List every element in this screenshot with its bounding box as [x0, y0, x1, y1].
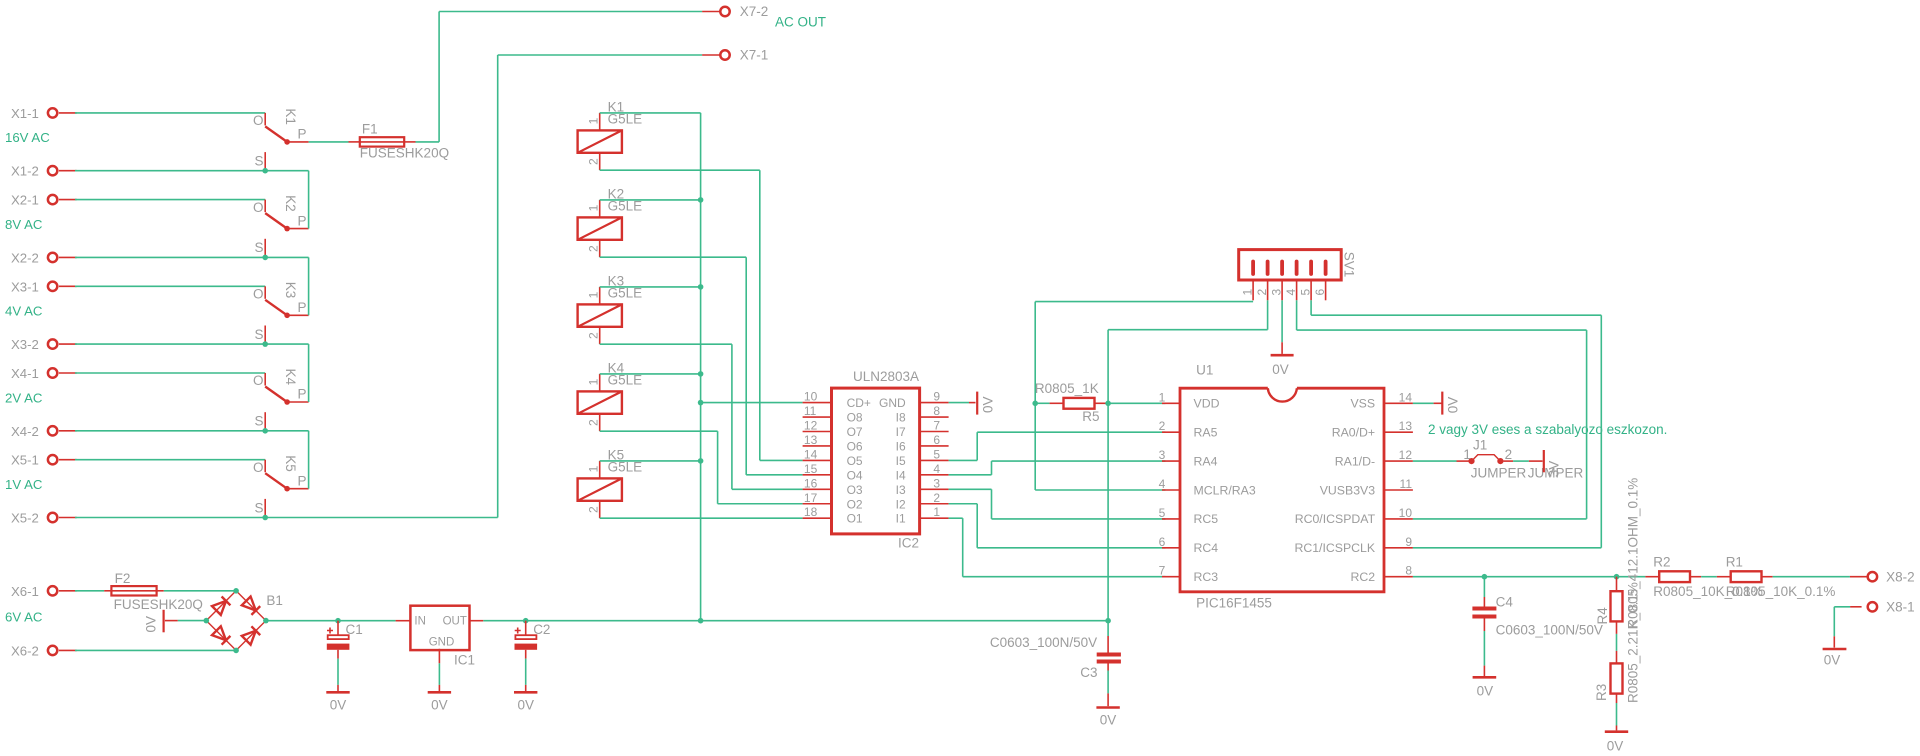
svg-text:RC3: RC3: [1194, 570, 1219, 584]
ground 0V under X8-1: [1823, 636, 1847, 667]
svg-text:X6-1: X6-1: [11, 584, 39, 599]
svg-text:2: 2: [586, 158, 600, 165]
svg-text:9: 9: [933, 390, 940, 404]
wire K5 coil to IC2.O1: [600, 517, 803, 519]
svg-text:RA0/D+: RA0/D+: [1332, 426, 1375, 440]
svg-text:0V: 0V: [330, 698, 347, 713]
wire K1 coil top: [600, 112, 701, 114]
svg-text:2: 2: [1505, 447, 1513, 462]
svg-text:9: 9: [1405, 535, 1412, 549]
wire SV1.3 to ground: [1281, 300, 1283, 342]
svg-text:0V: 0V: [517, 698, 534, 713]
svg-text:11: 11: [1400, 477, 1413, 491]
svg-text:O5: O5: [847, 454, 863, 468]
svg-text:O4: O4: [847, 468, 863, 482]
svg-text:3: 3: [933, 476, 940, 490]
svg-text:X1-2: X1-2: [11, 164, 39, 179]
wire X2-1 to K2.O: [75, 199, 265, 201]
connector pin X1-2: [11, 164, 77, 179]
ground 0V under IC1: [428, 685, 451, 713]
relay switch K5: [253, 455, 309, 517]
svg-text:O8: O8: [847, 411, 863, 425]
svg-text:CD+: CD+: [847, 396, 871, 410]
svg-text:7: 7: [933, 419, 940, 433]
svg-text:10: 10: [1399, 506, 1413, 520]
svg-text:R0805_10K_0.1%: R0805_10K_0.1%: [1726, 584, 1836, 599]
svg-text:OUT: OUT: [443, 615, 467, 627]
connector pin X7-2: [702, 4, 768, 19]
svg-text:O: O: [253, 373, 264, 388]
svg-text:RA5: RA5: [1194, 426, 1218, 440]
svg-text:B1: B1: [266, 593, 283, 608]
wire K3.P link: [308, 257, 310, 315]
svg-text:VUSB3V3: VUSB3V3: [1320, 483, 1376, 497]
connector pin X5-2: [11, 511, 77, 526]
wire IC1.OUT rail: [483, 620, 1108, 622]
svg-text:K2: K2: [283, 195, 298, 212]
svg-text:O3: O3: [847, 483, 863, 497]
supply 0V at U1 pin 14: [1434, 392, 1461, 415]
wire SV1.5 to ICSPCLK: [1310, 300, 1312, 315]
junction rail C3: [1105, 618, 1111, 624]
svg-text:I7: I7: [896, 425, 906, 439]
svg-text:X5-2: X5-2: [11, 511, 39, 526]
wire K3 coil to IC2.O3: [600, 343, 732, 345]
ground 0V under C4: [1473, 677, 1497, 698]
svg-text:0V: 0V: [431, 698, 448, 713]
relay switch K1: [253, 108, 309, 170]
svg-text:R5: R5: [1082, 409, 1099, 424]
svg-text:0V: 0V: [1607, 739, 1624, 754]
wire I4 to RA4: [949, 474, 992, 476]
svg-text:RC5: RC5: [1194, 512, 1219, 526]
svg-text:R0805_412.1OHM_0.1%: R0805_412.1OHM_0.1%: [1626, 478, 1641, 629]
svg-text:11: 11: [804, 404, 817, 418]
svg-text:2: 2: [586, 332, 600, 339]
wire coil supply bus: [700, 113, 702, 621]
svg-text:0V: 0V: [1824, 653, 1841, 668]
svg-text:K1: K1: [283, 108, 298, 125]
svg-text:2: 2: [586, 506, 600, 513]
connector pin X1-1: [11, 106, 77, 121]
svg-text:0V: 0V: [1272, 362, 1289, 377]
connector pin X4-2: [11, 424, 77, 439]
svg-text:6: 6: [1159, 535, 1166, 549]
svg-text:P: P: [298, 127, 307, 142]
svg-text:2V AC: 2V AC: [5, 390, 43, 405]
svg-text:5: 5: [1159, 506, 1166, 520]
svg-text:1: 1: [1241, 289, 1255, 296]
voltage regulator IC1: [396, 606, 484, 668]
svg-text:SV1: SV1: [1342, 252, 1357, 278]
svg-text:VDD: VDD: [1194, 397, 1220, 411]
svg-text:1V AC: 1V AC: [5, 477, 43, 492]
wire I5 to RA5: [949, 459, 978, 461]
wire X2-2 bus: [75, 256, 309, 258]
svg-text:4V AC: 4V AC: [5, 304, 43, 319]
svg-text:R1: R1: [1726, 555, 1743, 570]
wire X3-2 bus: [75, 343, 309, 345]
junction: [698, 284, 704, 290]
svg-text:MCLR/RA3: MCLR/RA3: [1194, 483, 1256, 497]
svg-text:C2: C2: [533, 622, 550, 637]
svg-text:I6: I6: [896, 439, 906, 453]
svg-text:X8-1: X8-1: [1886, 600, 1915, 615]
svg-text:13: 13: [804, 433, 818, 447]
svg-text:RA1/D-: RA1/D-: [1335, 454, 1375, 468]
svg-text:RC0/ICSPDAT: RC0/ICSPDAT: [1295, 512, 1376, 526]
svg-text:R0805_1K: R0805_1K: [1035, 381, 1099, 396]
svg-text:2 vagy 3V eses a szabalyozo es: 2 vagy 3V eses a szabalyozo eszkozon.: [1428, 422, 1667, 437]
wire X4-2 bus: [75, 430, 309, 432]
relay coil K2 G5LE: [578, 186, 643, 257]
svg-text:1: 1: [586, 291, 600, 298]
wire VDD down to rail: [1107, 403, 1109, 620]
wire X1-1 to K1.O: [75, 112, 265, 114]
svg-text:0V: 0V: [1100, 713, 1117, 728]
relay coil K5 G5LE: [578, 447, 643, 518]
wire bus to IC2.CD+: [701, 402, 803, 404]
wire K2 coil to IC2.O4: [600, 256, 747, 258]
svg-text:P: P: [298, 300, 307, 315]
svg-text:J1: J1: [1473, 438, 1487, 453]
svg-text:2: 2: [586, 419, 600, 426]
wire X7-1 horizontal: [498, 54, 702, 56]
svg-text:1: 1: [586, 117, 600, 124]
svg-text:VSS: VSS: [1350, 397, 1375, 411]
svg-text:O6: O6: [847, 439, 863, 453]
svg-text:15: 15: [804, 462, 818, 476]
connector pin X7-1: [702, 48, 768, 63]
svg-text:X6-2: X6-2: [11, 643, 39, 658]
junction: [262, 255, 268, 261]
capacitor C4 C0603_100N/50V: [1472, 577, 1603, 638]
junction: [262, 341, 268, 347]
svg-text:AC OUT: AC OUT: [775, 15, 826, 30]
svg-text:X7-2: X7-2: [740, 4, 769, 19]
ground 0V under C3: [1096, 708, 1119, 728]
svg-text:RC4: RC4: [1194, 541, 1219, 555]
svg-text:F1: F1: [362, 122, 378, 137]
wire K2.P link: [308, 171, 310, 229]
connector pin X3-2: [11, 337, 77, 352]
svg-text:C4: C4: [1496, 595, 1514, 610]
capacitor C3 C0603_100N/50V: [990, 621, 1121, 680]
relay switch K3: [253, 282, 309, 344]
svg-text:X5-1: X5-1: [11, 453, 39, 468]
wire B1 left to 0V: [178, 620, 207, 622]
svg-text:1: 1: [586, 378, 600, 385]
wire X4-1 to K4.O: [75, 372, 265, 374]
connector pin X2-2: [11, 250, 77, 265]
svg-text:12: 12: [804, 419, 818, 433]
supply 3V bar: [1529, 450, 1562, 477]
resistor R2 R0805_10K_0.1%: [1645, 555, 1762, 600]
connector pin X4-1: [11, 366, 77, 381]
svg-text:O: O: [253, 113, 264, 128]
svg-text:RC2: RC2: [1350, 570, 1375, 584]
svg-text:2: 2: [1159, 419, 1166, 433]
svg-text:6V AC: 6V AC: [5, 609, 43, 624]
wire R5L to MCLR: [1034, 403, 1036, 490]
svg-text:1: 1: [586, 465, 600, 472]
svg-text:X2-2: X2-2: [11, 250, 39, 265]
svg-text:X3-1: X3-1: [11, 279, 39, 294]
svg-text:U1: U1: [1196, 363, 1213, 378]
bridge rectifier B1: [206, 591, 283, 651]
svg-text:X4-1: X4-1: [11, 366, 39, 381]
wire X3-1 to K3.O: [75, 285, 265, 287]
resistor R4 R0805_2.21K_0.1%: [1595, 577, 1623, 625]
relay coil K1 G5LE: [578, 99, 643, 170]
junction: [698, 400, 704, 406]
relay switch K2: [253, 195, 309, 257]
svg-text:I4: I4: [896, 468, 906, 482]
svg-text:7: 7: [1159, 564, 1166, 578]
wire K1.P to F1: [309, 141, 349, 143]
svg-text:1: 1: [586, 204, 600, 211]
wire C3 to ground: [1107, 671, 1109, 694]
resistor R3 R0805_412.1OHM_0.1%: [1594, 663, 1623, 701]
svg-text:14: 14: [804, 447, 818, 461]
svg-text:FUSESHK20Q: FUSESHK20Q: [114, 597, 203, 612]
svg-text:PIC16F1455: PIC16F1455: [1196, 596, 1272, 611]
junction R5 right: [1105, 401, 1111, 407]
svg-text:P: P: [298, 473, 307, 488]
svg-text:4: 4: [933, 462, 940, 476]
connector pin X5-1: [11, 453, 77, 468]
junction: [698, 197, 704, 203]
svg-text:8: 8: [933, 404, 940, 418]
wire SV1.2 down: [1267, 300, 1269, 329]
svg-text:I1: I1: [896, 512, 906, 526]
wire X5-2 to X7-1: [75, 517, 498, 519]
wire K4 coil to IC2.O2: [600, 430, 718, 432]
svg-text:C0603_100N/50V: C0603_100N/50V: [1496, 623, 1603, 638]
svg-text:14: 14: [1399, 390, 1413, 404]
svg-text:S: S: [254, 327, 263, 342]
wire F2 to B1: [164, 590, 236, 592]
svg-text:3: 3: [1270, 289, 1284, 296]
svg-text:C0603_100N/50V: C0603_100N/50V: [990, 635, 1097, 650]
ground 0V under SV1 pin3: [1271, 342, 1294, 377]
svg-text:C1: C1: [346, 622, 363, 637]
svg-text:17: 17: [804, 491, 818, 505]
connector pin X6-2: [11, 643, 77, 658]
svg-text:X8-2: X8-2: [1886, 570, 1915, 585]
svg-text:X1-1: X1-1: [11, 106, 39, 121]
svg-text:6: 6: [933, 433, 940, 447]
svg-text:C3: C3: [1080, 665, 1097, 680]
resistor R5 R0805_1K: [1035, 381, 1108, 424]
junction: [698, 458, 704, 464]
svg-text:I5: I5: [896, 454, 906, 468]
connector pin X8-2: [1850, 570, 1915, 585]
wire X1-2 bus: [75, 170, 309, 172]
junction: [262, 515, 268, 521]
wire F1 to X7-2: [416, 141, 440, 143]
svg-text:1: 1: [933, 505, 940, 519]
wire K1 coil to IC2.O5: [600, 169, 760, 171]
junction: [262, 168, 268, 174]
svg-text:16: 16: [804, 476, 818, 490]
junction C2: [523, 618, 529, 624]
jumper J1: [1457, 438, 1584, 481]
svg-text:RC1/ICSPCLK: RC1/ICSPCLK: [1294, 541, 1375, 555]
svg-text:4: 4: [1284, 289, 1298, 296]
junction B1 node: [263, 618, 269, 624]
svg-text:S: S: [254, 500, 263, 515]
wire K5 coil top: [600, 460, 701, 462]
relay coil K3 G5LE: [578, 273, 643, 344]
wire J1 to 3V: [1513, 460, 1529, 462]
svg-text:GND: GND: [429, 637, 455, 649]
svg-text:R3: R3: [1594, 684, 1609, 701]
junction: [698, 371, 704, 377]
wire VDD to SV1.2: [1107, 330, 1109, 404]
wire VSS: [1413, 402, 1434, 404]
fuse F2: [75, 571, 203, 612]
svg-text:IC1: IC1: [454, 653, 475, 668]
svg-text:X7-1: X7-1: [740, 48, 769, 63]
wire K5.P link: [308, 431, 310, 489]
wire K4 coil top: [600, 373, 701, 375]
wire IC2.GND: [949, 402, 969, 404]
wire I3 to RC5: [949, 488, 992, 490]
svg-text:2: 2: [933, 491, 940, 505]
svg-text:1: 1: [1159, 390, 1166, 404]
svg-text:O: O: [253, 200, 264, 215]
relay switch K4: [253, 369, 309, 431]
junction: [262, 428, 268, 434]
connector SV1: [1239, 250, 1357, 301]
connector pin X3-1: [11, 279, 77, 294]
junction R5 left: [1032, 401, 1038, 407]
svg-text:R2: R2: [1653, 555, 1670, 570]
svg-text:S: S: [254, 154, 263, 169]
svg-text:P: P: [298, 387, 307, 402]
wire RC2 rail: [1413, 576, 1646, 578]
svg-text:K5: K5: [283, 455, 298, 472]
svg-text:GND: GND: [879, 396, 906, 410]
svg-text:X2-1: X2-1: [11, 193, 39, 208]
svg-text:ULN2803A: ULN2803A: [853, 369, 919, 384]
connector pin X6-1: [11, 584, 77, 599]
wire I1 to RC3: [949, 517, 963, 519]
svg-text:K4: K4: [283, 369, 298, 386]
junction R4: [1614, 574, 1620, 580]
junction B1 node: [204, 618, 210, 624]
svg-text:X3-2: X3-2: [11, 337, 39, 352]
capacitor C2: [514, 621, 550, 713]
svg-text:4: 4: [1159, 477, 1166, 491]
svg-text:0V: 0V: [144, 616, 159, 633]
svg-text:IC2: IC2: [898, 536, 919, 551]
svg-text:13: 13: [1399, 419, 1413, 433]
wire X5-1 to K5.O: [75, 459, 265, 461]
svg-text:1: 1: [1463, 447, 1471, 462]
wire R3 to ground: [1616, 694, 1618, 703]
svg-text:O: O: [253, 287, 264, 302]
svg-text:5: 5: [1299, 289, 1313, 296]
wire R2 to R1: [1701, 576, 1717, 578]
svg-text:RA4: RA4: [1194, 454, 1218, 468]
connector pin X8-1: [1850, 600, 1915, 615]
wire X6-2 to B1: [75, 649, 236, 651]
wire R1 to X8-2: [1773, 576, 1850, 578]
svg-text:3V: 3V: [1547, 461, 1562, 478]
wire K2 coil top: [600, 199, 701, 201]
supply 0V at IC2 pin 9: [969, 392, 995, 415]
junction C4: [1482, 574, 1488, 580]
svg-text:2: 2: [586, 245, 600, 252]
wire C4 to ground: [1483, 631, 1485, 666]
svg-text:K3: K3: [283, 282, 298, 299]
op-amp driver IC2 ULN2803A: [803, 369, 949, 551]
svg-text:P: P: [298, 213, 307, 228]
wire X8-1 to ground: [1834, 606, 1850, 608]
svg-text:I8: I8: [896, 411, 906, 425]
wire SV1.4 to ICSPDAT: [1296, 300, 1298, 330]
svg-text:FUSESHK20Q: FUSESHK20Q: [360, 146, 449, 161]
junction C1: [335, 618, 341, 624]
svg-text:0V: 0V: [1477, 684, 1494, 699]
wire K3 coil top: [600, 286, 701, 288]
svg-text:O7: O7: [847, 425, 863, 439]
svg-text:S: S: [254, 414, 263, 429]
wire VDD net: [1108, 402, 1165, 404]
wire IC1.GND: [438, 663, 440, 685]
svg-text:8: 8: [1405, 564, 1412, 578]
resistor R1 R0805_10K_0.1%: [1717, 555, 1836, 600]
svg-text:10: 10: [804, 390, 818, 404]
svg-text:S: S: [254, 240, 263, 255]
svg-text:O: O: [253, 460, 264, 475]
svg-text:IN: IN: [414, 615, 426, 627]
svg-text:12: 12: [1399, 448, 1413, 462]
capacitor C1: [326, 621, 362, 713]
svg-text:2: 2: [1255, 289, 1269, 296]
svg-text:I3: I3: [896, 483, 906, 497]
microcontroller U1 PIC16F1455: [1159, 363, 1413, 611]
connector pin X2-1: [11, 193, 77, 208]
svg-text:18: 18: [804, 505, 818, 519]
svg-text:I2: I2: [896, 497, 906, 511]
ground 0V under R3: [1605, 732, 1628, 754]
svg-text:0V: 0V: [1445, 397, 1460, 414]
junction B1 node: [233, 648, 239, 654]
wire R5L to SV1.1: [1034, 302, 1036, 404]
wire R4 to R3: [1616, 621, 1618, 634]
svg-text:5: 5: [933, 447, 940, 461]
wire I2 to RC4: [949, 503, 978, 505]
svg-text:8V AC: 8V AC: [5, 217, 43, 232]
svg-text:JUMPER: JUMPER: [1471, 466, 1527, 481]
junction bus-rail: [698, 618, 704, 624]
svg-text:F2: F2: [115, 571, 131, 586]
svg-text:6: 6: [1313, 289, 1327, 296]
fuse F1: [349, 122, 450, 161]
supply 0V at B1: [144, 610, 178, 633]
junction B1 node: [233, 588, 239, 594]
wire K4.P link: [308, 344, 310, 402]
svg-text:3: 3: [1159, 448, 1166, 462]
svg-text:16V AC: 16V AC: [5, 130, 50, 145]
wire RA1/D- to J1: [1413, 460, 1457, 462]
svg-text:O2: O2: [847, 497, 863, 511]
svg-text:X4-2: X4-2: [11, 424, 39, 439]
relay coil K4 G5LE: [578, 360, 643, 431]
